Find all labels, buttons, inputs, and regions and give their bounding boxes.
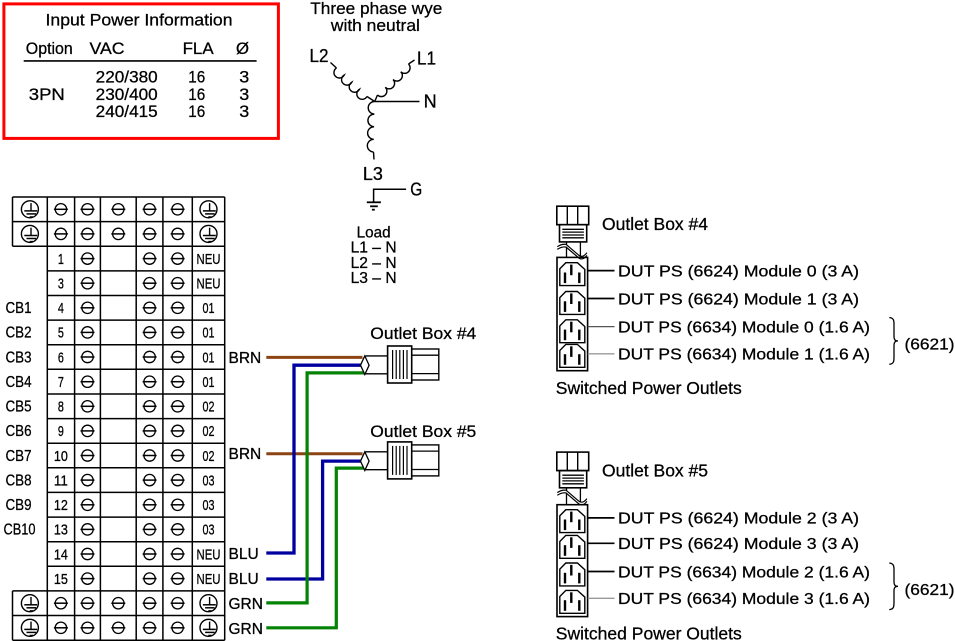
svg-text:BRN: BRN	[229, 446, 262, 463]
svg-text:(6621): (6621)	[905, 336, 955, 353]
svg-text:02: 02	[203, 399, 215, 416]
svg-text:5: 5	[58, 325, 64, 342]
svg-text:3: 3	[58, 276, 64, 293]
svg-text:9: 9	[58, 423, 64, 440]
svg-text:03: 03	[203, 522, 215, 539]
svg-text:10: 10	[54, 448, 68, 465]
svg-text:FLA: FLA	[183, 39, 215, 58]
svg-text:DUT PS (6624) Module 2 (3 A): DUT PS (6624) Module 2 (3 A)	[618, 511, 859, 528]
svg-text:12: 12	[54, 497, 68, 514]
svg-text:01: 01	[203, 349, 215, 366]
svg-text:240/415: 240/415	[96, 102, 158, 121]
svg-text:8: 8	[58, 399, 64, 416]
svg-text:11: 11	[54, 472, 68, 489]
svg-text:14: 14	[54, 546, 68, 563]
svg-text:CB4: CB4	[6, 374, 32, 391]
svg-text:N: N	[424, 92, 437, 112]
svg-text:BLU: BLU	[229, 546, 259, 563]
svg-text:CB9: CB9	[6, 497, 32, 514]
svg-text:CB2: CB2	[6, 325, 32, 342]
svg-text:16: 16	[188, 68, 205, 87]
svg-text:13: 13	[54, 522, 68, 539]
svg-text:CB8: CB8	[6, 472, 32, 489]
svg-text:230/400: 230/400	[96, 85, 158, 104]
svg-text:CB5: CB5	[6, 399, 32, 416]
svg-text:(6621): (6621)	[905, 582, 955, 599]
svg-text:CB3: CB3	[6, 349, 32, 366]
svg-text:01: 01	[203, 374, 215, 391]
svg-text:03: 03	[203, 472, 215, 489]
svg-text:7: 7	[58, 374, 64, 391]
svg-text:VAC: VAC	[90, 39, 125, 58]
svg-text:Outlet Box #4: Outlet Box #4	[602, 214, 708, 234]
svg-text:CB1: CB1	[6, 300, 32, 317]
svg-text:GRN: GRN	[229, 621, 263, 638]
svg-text:01: 01	[203, 325, 215, 342]
svg-text:NEU: NEU	[197, 276, 221, 293]
svg-text:DUT PS (6634) Module 1 (1.6 A): DUT PS (6634) Module 1 (1.6 A)	[618, 347, 870, 364]
svg-text:L2: L2	[310, 46, 329, 66]
svg-text:220/380: 220/380	[96, 68, 158, 87]
svg-text:DUT PS (6624) Module 3 (3 A): DUT PS (6624) Module 3 (3 A)	[618, 536, 859, 553]
svg-text:DUT PS (6634) Module 2 (1.6 A): DUT PS (6634) Module 2 (1.6 A)	[618, 564, 870, 581]
svg-text:15: 15	[54, 571, 68, 588]
svg-text:DUT PS (6624) Module 0 (3 A): DUT PS (6624) Module 0 (3 A)	[618, 263, 859, 280]
svg-text:02: 02	[203, 423, 215, 440]
svg-text:BLU: BLU	[229, 571, 259, 588]
svg-text:CB7: CB7	[6, 448, 32, 465]
svg-text:4: 4	[58, 300, 64, 317]
svg-text:02: 02	[203, 448, 215, 465]
svg-text:Option: Option	[26, 39, 73, 58]
svg-text:CB10: CB10	[4, 522, 36, 539]
svg-text:16: 16	[188, 102, 205, 121]
svg-text:3: 3	[239, 85, 249, 104]
svg-text:16: 16	[188, 85, 205, 104]
svg-text:01: 01	[203, 300, 215, 317]
svg-text:3: 3	[239, 102, 249, 121]
svg-text:with neutral: with neutral	[330, 16, 420, 35]
svg-text:BRN: BRN	[229, 350, 262, 367]
svg-text:3: 3	[239, 68, 249, 87]
svg-text:DUT PS (6634) Module 3 (1.6 A): DUT PS (6634) Module 3 (1.6 A)	[618, 591, 870, 608]
svg-text:NEU: NEU	[197, 546, 221, 563]
svg-text:Outlet Box #5: Outlet Box #5	[602, 461, 708, 481]
svg-text:Switched Power Outlets: Switched Power Outlets	[556, 378, 742, 398]
svg-text:Outlet Box #4: Outlet Box #4	[370, 324, 476, 343]
svg-text:1: 1	[58, 251, 64, 268]
svg-text:6: 6	[58, 349, 64, 366]
svg-text:NEU: NEU	[197, 251, 221, 268]
svg-text:3PN: 3PN	[29, 85, 65, 104]
svg-text:Switched Power Outlets: Switched Power Outlets	[556, 623, 742, 641]
svg-text:Outlet Box #5: Outlet Box #5	[370, 422, 476, 441]
svg-text:NEU: NEU	[197, 571, 221, 588]
svg-text:Input Power Information: Input Power Information	[46, 11, 233, 30]
svg-text:GRN: GRN	[229, 596, 263, 613]
svg-text:G: G	[410, 180, 422, 200]
svg-text:CB6: CB6	[6, 423, 32, 440]
svg-text:Ø: Ø	[236, 39, 249, 58]
svg-text:03: 03	[203, 497, 215, 514]
svg-text:DUT PS (6624) Module 1 (3 A): DUT PS (6624) Module 1 (3 A)	[618, 291, 859, 308]
svg-text:L3 – N: L3 – N	[351, 270, 397, 287]
svg-text:L1: L1	[417, 49, 436, 69]
svg-text:DUT PS (6634) Module 0 (1.6 A): DUT PS (6634) Module 0 (1.6 A)	[618, 319, 870, 336]
svg-text:L3: L3	[363, 164, 383, 184]
